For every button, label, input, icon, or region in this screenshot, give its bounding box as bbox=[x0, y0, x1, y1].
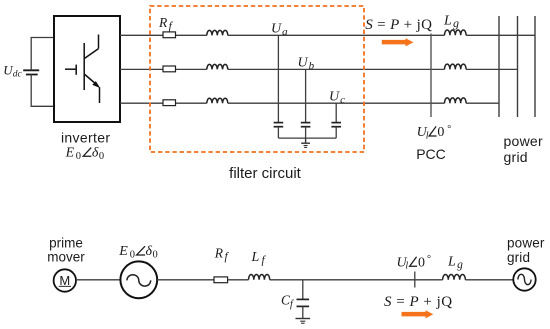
svg-text:l: l bbox=[405, 261, 408, 272]
wire M to source bbox=[76, 279, 120, 281]
label PCC bbox=[416, 146, 446, 162]
inductor Lg bottom bbox=[443, 274, 466, 279]
svg-text:E: E bbox=[65, 145, 75, 160]
capacitor phase a bbox=[274, 123, 284, 139]
wire dc top bbox=[31, 38, 54, 71]
label Lg top bbox=[443, 13, 459, 30]
svg-text:filter circuit: filter circuit bbox=[229, 165, 302, 182]
label S = P + jQ top bbox=[365, 17, 432, 33]
transistor arrowhead bbox=[92, 81, 100, 88]
transistor IGBT bbox=[65, 35, 100, 104]
ground bbox=[301, 138, 310, 147]
svg-text:°: ° bbox=[427, 254, 431, 265]
svg-text:S = P + jQ: S = P + jQ bbox=[365, 17, 432, 33]
ground bottom bbox=[296, 319, 311, 324]
node Ua bbox=[271, 22, 288, 39]
label inverter bbox=[61, 129, 110, 145]
label Lf bottom bbox=[251, 250, 267, 267]
source power grid bbox=[513, 268, 535, 290]
svg-text:E: E bbox=[118, 244, 128, 259]
source E0 bbox=[120, 261, 157, 298]
svg-text:δ: δ bbox=[92, 145, 99, 160]
svg-text:power: power bbox=[504, 133, 543, 149]
svg-text:mover: mover bbox=[47, 249, 85, 264]
svg-text:0: 0 bbox=[153, 250, 158, 261]
wire source to Rf bbox=[157, 279, 214, 281]
svg-text:grid: grid bbox=[504, 149, 528, 165]
svg-text:prime: prime bbox=[49, 235, 83, 250]
wire phase c bbox=[120, 102, 499, 104]
label power grid top bbox=[504, 133, 543, 165]
wire phase a bbox=[120, 34, 535, 36]
wire capacitor bus bbox=[278, 137, 336, 139]
svg-text:0: 0 bbox=[76, 151, 81, 162]
inductor Lg phase a bbox=[445, 30, 467, 35]
inductor Lf bottom bbox=[249, 274, 270, 279]
svg-text:0: 0 bbox=[418, 255, 425, 270]
svg-text:M: M bbox=[59, 273, 70, 288]
svg-text:inverter: inverter bbox=[61, 129, 110, 145]
wire phase b bbox=[120, 68, 518, 70]
resistor phase b bbox=[163, 66, 176, 72]
label Udc bbox=[3, 62, 22, 79]
label prime mover bbox=[47, 235, 85, 264]
label E0 angle delta0 bbox=[65, 145, 105, 162]
svg-text:PCC: PCC bbox=[416, 146, 446, 162]
capacitor Cf bbox=[297, 280, 310, 319]
svg-text:power: power bbox=[507, 236, 545, 251]
label Lg bottom bbox=[447, 254, 463, 271]
inductor Lf phase c bbox=[207, 98, 228, 103]
inductor Lf phase a bbox=[207, 30, 228, 35]
wire dc bottom bbox=[31, 75, 54, 107]
svg-text:S = P + jQ: S = P + jQ bbox=[384, 294, 453, 310]
svg-text:δ: δ bbox=[146, 244, 153, 259]
resistor Rf bottom bbox=[214, 277, 228, 283]
label E0 angle delta0 bottom bbox=[118, 244, 158, 261]
svg-text:l: l bbox=[426, 130, 429, 141]
power grid bus bar 3 bbox=[534, 16, 536, 117]
label S = P + jQ bottom bbox=[384, 294, 453, 310]
filter circuit dashed box bbox=[150, 6, 364, 152]
svg-text:Lg: Lg bbox=[443, 13, 459, 30]
resistor Rf phase a bbox=[163, 32, 176, 38]
wire cap drop c bbox=[335, 103, 337, 122]
label power grid bottom bbox=[507, 236, 545, 266]
label Rf bbox=[158, 15, 174, 33]
svg-text:0: 0 bbox=[437, 125, 444, 140]
power grid bus bar 2 bbox=[517, 16, 519, 117]
wire Lf to grid side bbox=[270, 279, 514, 281]
svg-text:grid: grid bbox=[507, 250, 530, 265]
inverter box bbox=[54, 16, 120, 122]
power flow arrow bottom bbox=[402, 310, 434, 318]
inductor Lg phase b bbox=[445, 64, 467, 69]
inductor Lg phase c bbox=[445, 98, 467, 103]
resistor phase c bbox=[163, 100, 176, 106]
label Rf bottom bbox=[214, 246, 230, 264]
svg-text:°: ° bbox=[447, 124, 451, 135]
label Ul angle 0 bottom bbox=[397, 254, 432, 271]
power grid bus bar 1 bbox=[498, 16, 500, 117]
DC source capacitor Udc bbox=[23, 70, 39, 74]
wire Rf to Lf bbox=[228, 279, 249, 281]
capacitor phase c bbox=[331, 123, 341, 139]
prime mover M machine bbox=[54, 269, 76, 291]
label Cf bbox=[281, 293, 294, 311]
label Ul angle 0 PCC bbox=[417, 124, 452, 142]
capacitor phase b bbox=[301, 123, 311, 139]
power flow arrow top bbox=[382, 38, 414, 46]
PCC bus bbox=[430, 34, 432, 117]
node Ub bbox=[298, 55, 315, 72]
svg-text:0: 0 bbox=[130, 250, 135, 261]
label filter circuit bbox=[229, 165, 302, 182]
node Ul tick bbox=[414, 272, 416, 288]
wire cap drop b bbox=[305, 69, 307, 122]
inductor Lf phase b bbox=[207, 64, 228, 69]
wire cap drop a bbox=[277, 35, 279, 122]
svg-text:0: 0 bbox=[99, 151, 104, 162]
node Uc bbox=[329, 89, 345, 106]
